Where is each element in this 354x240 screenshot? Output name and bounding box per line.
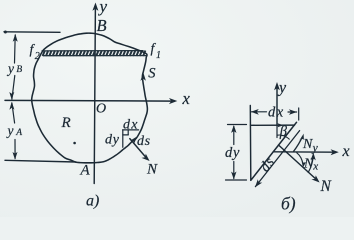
svg-text:dx: dx <box>268 105 285 121</box>
svg-text:б): б) <box>281 194 296 214</box>
svg-text:y: y <box>6 61 14 76</box>
svg-text:dy: dy <box>225 145 240 161</box>
svg-text:y: y <box>277 80 287 97</box>
svg-text:B: B <box>97 16 107 35</box>
svg-text:y: y <box>98 0 108 16</box>
svg-text:2: 2 <box>35 51 40 62</box>
svg-text:S: S <box>148 66 156 82</box>
svg-text:dx: dx <box>123 118 139 133</box>
svg-text:N: N <box>302 137 313 152</box>
svg-text:dy: dy <box>105 133 120 148</box>
svg-text:R: R <box>61 115 71 131</box>
svg-text:x: x <box>342 143 350 160</box>
svg-text:A: A <box>80 162 91 178</box>
svg-text:y: y <box>6 123 14 138</box>
svg-text:β: β <box>279 124 288 140</box>
svg-text:N: N <box>320 178 333 195</box>
svg-text:y: y <box>312 143 319 155</box>
svg-text:а): а) <box>86 193 99 210</box>
svg-text:O: O <box>96 102 106 117</box>
svg-text:ds: ds <box>137 134 151 149</box>
svg-text:B: B <box>16 65 22 75</box>
svg-text:x: x <box>182 89 191 108</box>
svg-text:x: x <box>312 161 318 173</box>
svg-text:A: A <box>15 128 22 138</box>
svg-text:1: 1 <box>156 50 161 61</box>
svg-text:N: N <box>146 162 158 178</box>
